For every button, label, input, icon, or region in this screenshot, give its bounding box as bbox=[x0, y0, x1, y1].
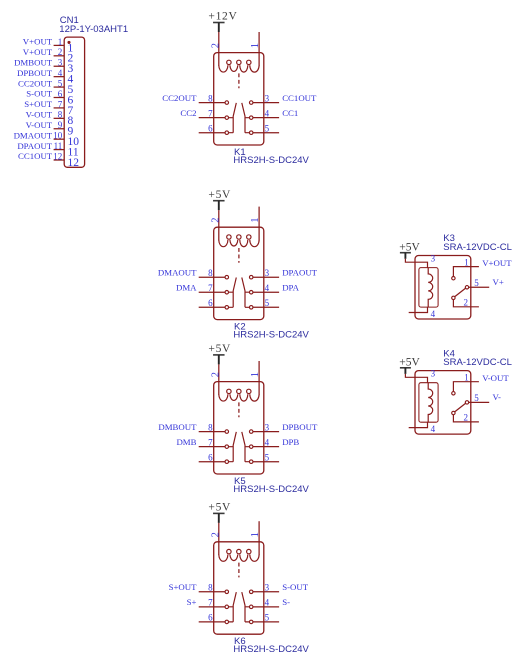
relay K1 coil bbox=[219, 65, 259, 72]
K5 contact pin 5 bbox=[249, 460, 253, 464]
wire CN1 pin 10 bbox=[54, 138, 65, 140]
CN1 pin 1 mark bbox=[67, 41, 70, 44]
wire K4 pin 2 bbox=[453, 415, 479, 422]
svg-text:V-OUT: V-OUT bbox=[26, 110, 53, 120]
K6 contact pin 4 bbox=[249, 605, 253, 609]
svg-text:5: 5 bbox=[58, 79, 63, 89]
wire CN1 pin 9 bbox=[54, 128, 65, 130]
svg-text:1: 1 bbox=[250, 43, 261, 48]
power +5V for K3 bbox=[399, 241, 420, 258]
svg-text:5: 5 bbox=[474, 393, 479, 403]
svg-text:1: 1 bbox=[464, 257, 469, 267]
K3 contact pin 2 bbox=[452, 296, 455, 299]
svg-text:V+: V+ bbox=[493, 277, 504, 287]
svg-text:3: 3 bbox=[58, 58, 63, 68]
svg-text:DMAOUT: DMAOUT bbox=[158, 267, 197, 277]
K5 contact pin 4 bbox=[249, 445, 253, 449]
wire K6 pin 1 stub bbox=[258, 521, 260, 555]
wire K5 pin 3 bbox=[253, 431, 279, 433]
svg-text:HRS2H-S-DC24V: HRS2H-S-DC24V bbox=[233, 644, 309, 655]
svg-text:8: 8 bbox=[208, 583, 213, 593]
svg-text:8: 8 bbox=[208, 93, 213, 103]
wire K6 pin 7 bbox=[199, 606, 225, 608]
wire K4 pin 5 bbox=[469, 401, 489, 403]
wire K6 pin 5 bbox=[253, 621, 279, 623]
svg-text:5: 5 bbox=[265, 453, 270, 463]
svg-text:CC2OUT: CC2OUT bbox=[18, 78, 53, 88]
relay K6 coil-contact dashed link bbox=[238, 563, 240, 578]
wire CN1 pin 7 bbox=[54, 107, 65, 109]
K6 contact pin 7 bbox=[225, 605, 229, 609]
wire CN1 pin 1 bbox=[54, 44, 65, 46]
svg-text:2: 2 bbox=[210, 532, 221, 537]
svg-text:CC2: CC2 bbox=[180, 108, 196, 118]
K1 right pole armature bbox=[242, 103, 250, 133]
wire K2 pin 3 bbox=[253, 276, 279, 278]
wire K5 pin 6 bbox=[199, 461, 225, 463]
relay K6 coil bbox=[219, 555, 259, 562]
svg-text:DMA: DMA bbox=[176, 282, 197, 292]
svg-text:DMB: DMB bbox=[176, 437, 196, 447]
svg-text:4: 4 bbox=[58, 68, 63, 78]
K5 contact pin 6 bbox=[225, 460, 229, 464]
relay K4 coil bbox=[428, 383, 433, 423]
svg-text:3: 3 bbox=[431, 253, 436, 263]
wire K2 pin 1 stub bbox=[258, 207, 260, 241]
K5 contact pin 3 bbox=[249, 430, 253, 434]
svg-text:+5V: +5V bbox=[399, 357, 420, 369]
svg-text:DPB: DPB bbox=[282, 437, 299, 447]
svg-text:3: 3 bbox=[265, 583, 270, 593]
K4 contact pin 1 bbox=[452, 392, 455, 395]
wire +5V to K3 pin 3 bbox=[405, 259, 427, 268]
svg-text:DMBOUT: DMBOUT bbox=[14, 57, 53, 67]
svg-text:4: 4 bbox=[431, 309, 436, 319]
relay K1 coil-contact dashed link bbox=[238, 73, 240, 88]
svg-text:S-: S- bbox=[282, 597, 290, 607]
svg-text:CC1: CC1 bbox=[282, 108, 298, 118]
wire K5 pin 8 bbox=[199, 431, 225, 433]
svg-text:2: 2 bbox=[58, 47, 63, 57]
svg-text:5: 5 bbox=[474, 278, 479, 288]
svg-text:S+OUT: S+OUT bbox=[24, 99, 53, 109]
svg-text:HRS2H-S-DC24V: HRS2H-S-DC24V bbox=[233, 329, 309, 340]
svg-text:8: 8 bbox=[208, 422, 213, 432]
wire +5V to K4 pin 3 bbox=[405, 374, 427, 383]
svg-text:SRA-12VDC-CL: SRA-12VDC-CL bbox=[443, 242, 512, 253]
connector CN1 body bbox=[64, 37, 84, 167]
svg-text:S-OUT: S-OUT bbox=[26, 89, 53, 99]
svg-text:3: 3 bbox=[265, 268, 270, 278]
svg-text:4: 4 bbox=[265, 283, 270, 293]
svg-text:CC2OUT: CC2OUT bbox=[162, 93, 197, 103]
relay K2 coil bbox=[219, 240, 259, 247]
wire K2 pin 8 bbox=[199, 276, 225, 278]
svg-text:7: 7 bbox=[58, 99, 63, 109]
svg-text:5: 5 bbox=[265, 298, 270, 308]
svg-text:2: 2 bbox=[210, 372, 221, 377]
svg-text:9: 9 bbox=[58, 120, 63, 130]
svg-text:3: 3 bbox=[431, 369, 436, 379]
svg-text:7: 7 bbox=[208, 283, 213, 293]
svg-text:1: 1 bbox=[250, 532, 261, 537]
svg-text:+5V: +5V bbox=[399, 241, 420, 253]
wire K1 pin 5 bbox=[253, 132, 279, 134]
wire CN1 pin 4 bbox=[54, 76, 65, 78]
K6 contact pin 5 bbox=[249, 620, 253, 624]
svg-text:7: 7 bbox=[208, 438, 213, 448]
svg-text:7: 7 bbox=[208, 598, 213, 608]
K5 left pole armature bbox=[229, 432, 237, 462]
svg-text:+5V: +5V bbox=[208, 502, 231, 514]
K2 contact pin 4 bbox=[249, 291, 253, 295]
svg-text:2: 2 bbox=[464, 413, 469, 423]
wire CN1 pin 5 bbox=[54, 86, 65, 88]
wire K5 pin 5 bbox=[253, 461, 279, 463]
svg-text:2: 2 bbox=[210, 43, 221, 48]
wire K1 pin 7 bbox=[199, 117, 225, 119]
svg-text:+5V: +5V bbox=[208, 189, 231, 201]
K1 contact pin 6 bbox=[225, 131, 229, 135]
svg-text:3: 3 bbox=[265, 93, 270, 103]
svg-text:3: 3 bbox=[265, 422, 270, 432]
relay K5 body bbox=[214, 382, 264, 474]
wire K3 pin 2 bbox=[453, 300, 479, 307]
K1 contact pin 3 bbox=[249, 101, 253, 105]
K5 contact pin 7 bbox=[225, 445, 229, 449]
relay K1 body bbox=[214, 53, 264, 145]
svg-text:11: 11 bbox=[54, 141, 63, 151]
wire CN1 pin 8 bbox=[54, 117, 65, 119]
svg-text:1: 1 bbox=[250, 372, 261, 377]
svg-text:1: 1 bbox=[58, 37, 63, 47]
svg-text:4: 4 bbox=[265, 598, 270, 608]
power +5V for K6 bbox=[208, 502, 231, 523]
wire K4 pin 4 bbox=[409, 422, 428, 427]
svg-text:S+OUT: S+OUT bbox=[169, 582, 198, 592]
svg-text:8: 8 bbox=[58, 110, 63, 120]
svg-text:+5V: +5V bbox=[208, 343, 231, 355]
wire +5V to K6 pin 2 bbox=[218, 523, 220, 555]
K2 contact pin 7 bbox=[225, 291, 229, 295]
svg-text:6: 6 bbox=[208, 613, 213, 623]
wire CN1 pin 3 bbox=[54, 65, 65, 67]
power +5V for K5 bbox=[208, 343, 231, 364]
relay K3 body bbox=[415, 256, 471, 320]
svg-text:S+: S+ bbox=[187, 597, 197, 607]
svg-text:CC1OUT: CC1OUT bbox=[282, 93, 317, 103]
wire K2 pin 7 bbox=[199, 291, 225, 293]
svg-text:DPA: DPA bbox=[282, 282, 299, 292]
wire K6 pin 4 bbox=[253, 606, 279, 608]
K3 contact pin 5 bbox=[465, 286, 468, 289]
svg-text:+12V: +12V bbox=[208, 11, 237, 23]
wire K5 pin 7 bbox=[199, 446, 225, 448]
relay K5 coil bbox=[219, 394, 259, 401]
svg-text:12: 12 bbox=[68, 157, 80, 169]
svg-text:4: 4 bbox=[431, 424, 436, 434]
svg-text:DPBOUT: DPBOUT bbox=[282, 422, 318, 432]
wire K2 pin 4 bbox=[253, 291, 279, 293]
K6 contact pin 8 bbox=[225, 590, 229, 594]
wire K1 pin 6 bbox=[199, 132, 225, 134]
wire K5 pin 1 stub bbox=[258, 361, 260, 395]
svg-text:DPBOUT: DPBOUT bbox=[17, 68, 53, 78]
svg-text:10: 10 bbox=[53, 131, 63, 141]
svg-text:DMBOUT: DMBOUT bbox=[158, 422, 197, 432]
relay K3 coil enclosure bbox=[419, 268, 438, 308]
K4 armature (5-2 closed) bbox=[455, 403, 466, 411]
svg-text:7: 7 bbox=[208, 109, 213, 119]
svg-text:V+OUT: V+OUT bbox=[23, 47, 53, 57]
wire K3 pin 5 bbox=[469, 286, 489, 288]
svg-text:V+OUT: V+OUT bbox=[23, 37, 53, 47]
wire +5V to K5 pin 2 bbox=[218, 364, 220, 394]
wire K1 pin 3 bbox=[253, 102, 279, 104]
svg-text:S-OUT: S-OUT bbox=[282, 582, 309, 592]
svg-text:6: 6 bbox=[58, 89, 63, 99]
power +5V for K2 bbox=[208, 189, 231, 210]
wire K1 pin 8 bbox=[199, 102, 225, 104]
K6 right pole armature bbox=[242, 592, 250, 622]
K4 contact pin 5 bbox=[465, 401, 468, 404]
K1 contact pin 4 bbox=[249, 116, 253, 120]
K2 left pole armature bbox=[229, 278, 237, 308]
svg-text:V-OUT: V-OUT bbox=[26, 120, 53, 130]
svg-text:V-: V- bbox=[493, 392, 502, 402]
relay K5 coil-contact dashed link bbox=[238, 402, 240, 417]
svg-text:2: 2 bbox=[210, 218, 221, 223]
K5 right pole armature bbox=[242, 432, 250, 462]
wire K1 pin 4 bbox=[253, 117, 279, 119]
wire K4 pin 1 bbox=[453, 382, 479, 392]
relay K6 body bbox=[214, 542, 264, 634]
relay K2 coil-contact dashed link bbox=[238, 248, 240, 263]
power +12V for K1 bbox=[208, 11, 237, 32]
svg-text:HRS2H-S-DC24V: HRS2H-S-DC24V bbox=[233, 155, 309, 166]
K4 contact pin 2 bbox=[452, 411, 455, 414]
relay K2 body bbox=[214, 227, 264, 319]
K2 contact pin 6 bbox=[225, 306, 229, 310]
wire CN1 pin 6 bbox=[54, 97, 65, 99]
svg-text:V-OUT: V-OUT bbox=[482, 373, 509, 383]
relay K3 coil bbox=[428, 268, 433, 308]
K6 contact pin 6 bbox=[225, 620, 229, 624]
K2 contact pin 5 bbox=[249, 306, 253, 310]
wire K3 pin 4 bbox=[409, 307, 428, 312]
wire CN1 pin 11 bbox=[54, 149, 65, 151]
svg-text:12: 12 bbox=[53, 151, 62, 161]
svg-text:6: 6 bbox=[208, 298, 213, 308]
K2 contact pin 3 bbox=[249, 275, 253, 279]
wire K1 pin 1 stub bbox=[258, 32, 260, 66]
K6 left pole armature bbox=[229, 592, 237, 622]
svg-text:8: 8 bbox=[208, 268, 213, 278]
relay K4 coil enclosure bbox=[419, 383, 438, 423]
wire CN1 pin 2 bbox=[54, 55, 65, 57]
K1 contact pin 7 bbox=[225, 116, 229, 120]
wire K2 pin 6 bbox=[199, 306, 225, 308]
K1 contact pin 5 bbox=[249, 131, 253, 135]
svg-text:SRA-12VDC-CL: SRA-12VDC-CL bbox=[443, 357, 512, 368]
K1 left pole armature bbox=[229, 103, 237, 133]
wire K5 pin 4 bbox=[253, 446, 279, 448]
svg-text:DPAOUT: DPAOUT bbox=[282, 267, 317, 277]
svg-text:DMAOUT: DMAOUT bbox=[14, 130, 53, 140]
svg-text:HRS2H-S-DC24V: HRS2H-S-DC24V bbox=[233, 484, 309, 495]
wire K2 pin 5 bbox=[253, 306, 279, 308]
K5 contact pin 8 bbox=[225, 430, 229, 434]
svg-text:1: 1 bbox=[250, 218, 261, 223]
wire K6 pin 8 bbox=[199, 591, 225, 593]
wire K6 pin 3 bbox=[253, 591, 279, 593]
K3 contact pin 1 bbox=[452, 277, 455, 280]
K1 contact pin 8 bbox=[225, 101, 229, 105]
svg-text:6: 6 bbox=[208, 124, 213, 134]
K2 contact pin 8 bbox=[225, 275, 229, 279]
K3 armature (5-2 closed) bbox=[455, 288, 466, 296]
svg-text:5: 5 bbox=[265, 124, 270, 134]
svg-text:2: 2 bbox=[464, 298, 469, 308]
K2 right pole armature bbox=[242, 278, 250, 308]
K6 contact pin 3 bbox=[249, 590, 253, 594]
power +5V for K4 bbox=[399, 357, 420, 374]
svg-text:4: 4 bbox=[265, 109, 270, 119]
svg-text:1: 1 bbox=[464, 373, 469, 383]
relay K4 body bbox=[415, 371, 471, 435]
svg-text:V+OUT: V+OUT bbox=[482, 258, 512, 268]
wire +12V to K1 pin 2 bbox=[218, 32, 220, 66]
wire K6 pin 6 bbox=[199, 621, 225, 623]
svg-text:5: 5 bbox=[265, 613, 270, 623]
svg-text:DPAOUT: DPAOUT bbox=[17, 141, 52, 151]
svg-text:4: 4 bbox=[265, 438, 270, 448]
svg-text:CC1OUT: CC1OUT bbox=[18, 151, 53, 161]
wire +5V to K2 pin 2 bbox=[218, 210, 220, 240]
svg-text:12P-1Y-03AHT1: 12P-1Y-03AHT1 bbox=[59, 24, 128, 35]
wire K3 pin 1 bbox=[453, 267, 479, 277]
svg-text:6: 6 bbox=[208, 453, 213, 463]
wire CN1 pin 12 bbox=[54, 159, 65, 161]
